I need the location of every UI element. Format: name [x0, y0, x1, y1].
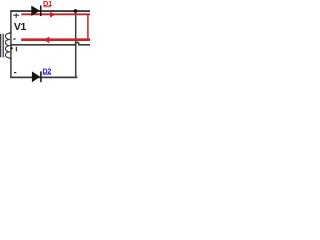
wire: top horizontal [10, 10, 90, 12]
current arrow down (at center tap) [16, 47, 18, 52]
wire: left vertical (secondary) [10, 10, 12, 78]
junction dot at top node [74, 9, 78, 13]
red arrow right (top line) [50, 12, 55, 18]
red current path: top line [21, 13, 90, 15]
diode D1 triangle [31, 6, 40, 17]
diode D1 cathode bar [40, 6, 42, 17]
diode D2 cathode bar [40, 71, 42, 82]
polarity mark: minus (above center tap) [13, 38, 15, 40]
wire: middle horizontal (center tap) with hop over vertical [10, 42, 90, 45]
svg-text:V1: V1 [14, 21, 27, 33]
polarity mark: plus (below center tap) [10, 47, 13, 50]
wire: right-middle vertical from junction to bottom [75, 11, 77, 77]
transformer secondary winding V1 coil [5, 32, 11, 59]
red arrow left (middle line) [44, 37, 49, 44]
polarity mark: plus (top terminal) [13, 13, 19, 18]
wire: bottom horizontal [10, 76, 77, 78]
red current path: middle return line [21, 38, 90, 41]
transformer core line 1 [0, 34, 2, 58]
diode D2 triangle [32, 71, 40, 82]
background [0, 0, 90, 90]
red current path: right vertical [87, 14, 89, 41]
polarity mark: minus (bottom terminal) [14, 72, 16, 74]
transformer core line 2 [2, 34, 4, 58]
